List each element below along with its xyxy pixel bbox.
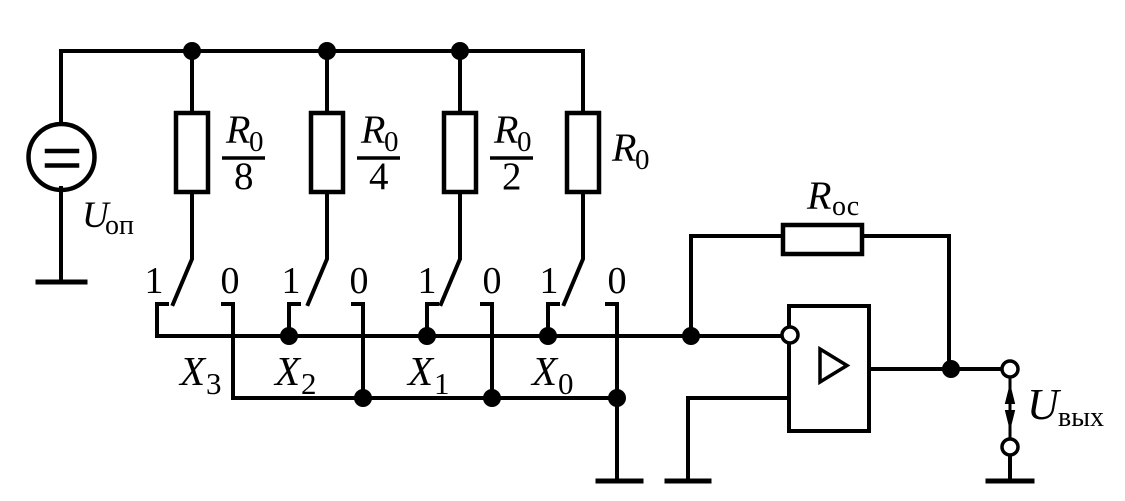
- svg-text:1: 1: [434, 366, 450, 401]
- svg-text:X: X: [406, 348, 435, 394]
- svg-text:1: 1: [282, 260, 301, 302]
- svg-text:3: 3: [206, 366, 222, 401]
- svg-text:X: X: [178, 348, 207, 394]
- svg-text:R: R: [225, 107, 250, 152]
- svg-text:1: 1: [418, 260, 437, 302]
- svg-text:X: X: [273, 348, 302, 394]
- svg-text:4: 4: [369, 155, 389, 198]
- svg-text:X: X: [530, 348, 559, 394]
- svg-text:0: 0: [384, 126, 399, 158]
- svg-text:ос: ос: [832, 191, 859, 222]
- svg-text:1: 1: [145, 260, 164, 302]
- svg-text:вых: вых: [1058, 402, 1104, 433]
- svg-text:R: R: [360, 107, 385, 152]
- svg-text:U: U: [1027, 380, 1062, 429]
- svg-text:0: 0: [249, 126, 264, 158]
- svg-text:0: 0: [608, 260, 627, 302]
- svg-text:2: 2: [301, 366, 317, 401]
- svg-text:0: 0: [221, 260, 240, 302]
- svg-text:R: R: [611, 125, 636, 170]
- svg-text:2: 2: [502, 155, 522, 198]
- svg-text:0: 0: [558, 366, 574, 401]
- svg-text:0: 0: [635, 144, 650, 176]
- svg-text:0: 0: [350, 260, 369, 302]
- svg-text:оп: оп: [105, 210, 134, 241]
- svg-text:R: R: [493, 107, 518, 152]
- svg-text:0: 0: [517, 126, 532, 158]
- svg-text:1: 1: [540, 260, 559, 302]
- svg-text:R: R: [806, 173, 831, 218]
- svg-text:0: 0: [483, 260, 502, 302]
- svg-text:8: 8: [234, 155, 254, 198]
